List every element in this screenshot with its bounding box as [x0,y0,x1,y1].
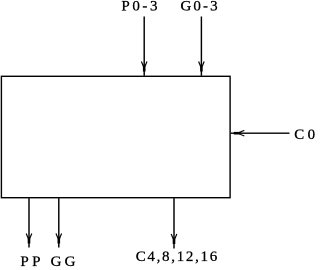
svg-text:P0-3: P0-3 [121,0,160,15]
svg-text:C0: C0 [294,127,315,143]
arrowhead C0 input [234,130,245,136]
arrowhead G0-3 input [199,62,205,72]
arrowhead C4,8,12,16 output [171,234,177,244]
arrowhead PP output [26,234,32,244]
wire PP output [28,198,30,247]
svg-text:PP: PP [20,254,44,270]
arrowhead P0-3 input [141,62,147,72]
wire C4,8,12,16 output [173,198,175,248]
arrowhead GG output [56,234,62,244]
wire GG output [58,198,60,247]
carry-lookahead block U1 [1,76,230,197]
wire G0-3 input [200,17,202,76]
svg-text:GG: GG [51,254,79,270]
svg-text:G0-3: G0-3 [181,0,220,15]
wire C0 input [231,132,290,134]
svg-text:C4,8,12,16: C4,8,12,16 [136,249,219,265]
wire P0-3 input [143,17,145,76]
